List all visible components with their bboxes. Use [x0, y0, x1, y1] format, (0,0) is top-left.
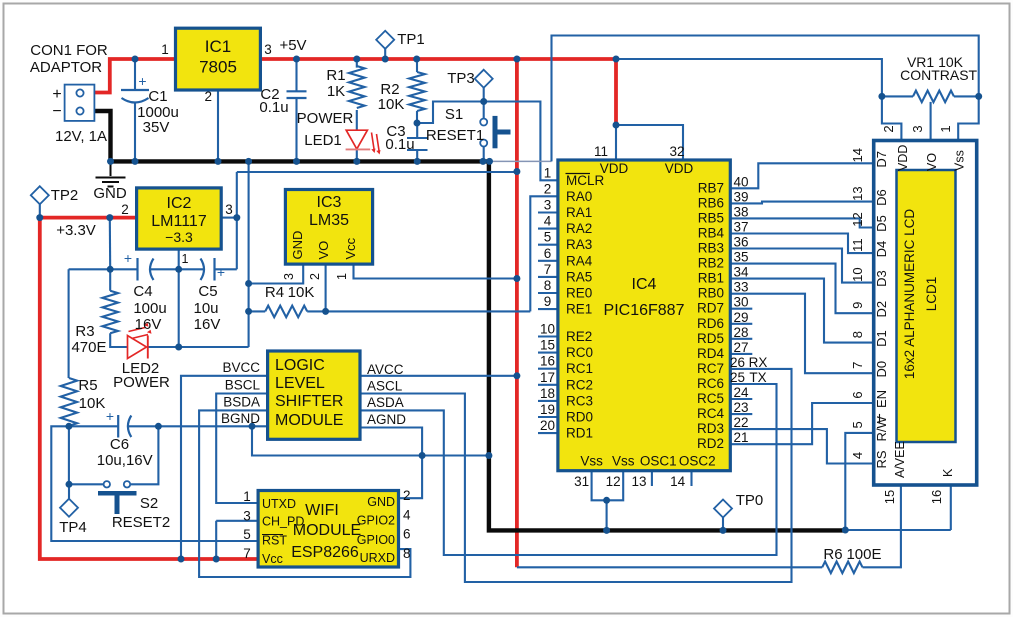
svg-text:SHIFTER: SHIFTER	[275, 393, 343, 410]
svg-text:35: 35	[733, 250, 748, 265]
svg-text:D7: D7	[874, 151, 889, 168]
svg-text:6: 6	[850, 391, 865, 398]
svg-text:BVCC: BVCC	[222, 360, 260, 375]
wire RB3 to LCD D3	[730, 249, 872, 283]
svg-text:37: 37	[733, 219, 748, 234]
wire OSC1 stub	[651, 471, 653, 486]
svg-text:7: 7	[243, 546, 251, 561]
svg-text:RA1: RA1	[566, 205, 592, 220]
wire RB0 to LCD D0	[730, 294, 872, 374]
IC4 unconnected right stubs	[730, 308, 752, 310]
wire IC3 pin3 GND	[249, 264, 304, 283]
svg-text:LM35: LM35	[309, 212, 349, 229]
svg-text:+: +	[52, 86, 61, 103]
svg-text:RE0: RE0	[566, 286, 592, 301]
svg-text:LED1: LED1	[304, 132, 342, 149]
capacitor C4	[136, 258, 138, 281]
LED2 POWER	[128, 336, 147, 359]
svg-text:RC6: RC6	[697, 376, 724, 391]
wire cap rail C4 C5	[69, 268, 237, 270]
wire C6 right to S2 right	[131, 426, 159, 484]
wire LED2 cathode to GND vert	[148, 346, 179, 348]
svg-text:VO: VO	[316, 241, 331, 260]
svg-text:16V: 16V	[194, 316, 221, 333]
svg-text:BGND: BGND	[221, 411, 260, 426]
svg-text:LM1117: LM1117	[151, 213, 207, 230]
svg-text:4: 4	[403, 508, 411, 523]
wire LED2 node to GND chain	[179, 161, 249, 347]
svg-text:IC3: IC3	[317, 194, 342, 211]
wire VR1 pin2 to LCD VDD	[882, 96, 902, 140]
svg-text:RC4: RC4	[697, 406, 724, 421]
svg-text:36: 36	[733, 235, 748, 250]
svg-text:3: 3	[910, 125, 925, 132]
wire R4 to RA0	[307, 196, 558, 311]
svg-text:29: 29	[733, 310, 748, 325]
wire C1 stem	[134, 59, 136, 161]
svg-text:10u: 10u	[193, 300, 218, 317]
svg-text:39: 39	[733, 189, 748, 204]
svg-text:VDD: VDD	[600, 161, 629, 176]
svg-text:1: 1	[938, 125, 953, 132]
svg-text:40: 40	[733, 174, 748, 189]
svg-text:RB4: RB4	[698, 225, 725, 240]
svg-text:RESET1: RESET1	[426, 127, 484, 144]
svg-text:RD5: RD5	[697, 331, 724, 346]
svg-text:26: 26	[730, 355, 745, 370]
svg-text:4: 4	[850, 452, 865, 459]
svg-text:D4: D4	[874, 241, 889, 258]
svg-text:TP0: TP0	[736, 492, 764, 509]
svg-text:2: 2	[121, 202, 129, 217]
svg-text:BSCL: BSCL	[225, 378, 261, 393]
svg-text:2: 2	[544, 181, 552, 196]
svg-text:9: 9	[544, 294, 552, 309]
svg-text:TP2: TP2	[51, 187, 79, 204]
svg-text:RD0: RD0	[566, 410, 593, 425]
svg-text:5: 5	[850, 421, 865, 428]
svg-text:1: 1	[335, 273, 349, 280]
wire RST loop to WIFI RST	[51, 426, 258, 541]
svg-text:D2: D2	[874, 301, 889, 318]
svg-text:R1: R1	[326, 67, 345, 84]
svg-text:1: 1	[243, 489, 251, 504]
svg-text:8: 8	[544, 278, 552, 293]
svg-text:ESP8266: ESP8266	[291, 544, 359, 561]
svg-text:18: 18	[540, 386, 555, 401]
wire AVCC to +5V	[360, 375, 517, 377]
svg-text:MCLR: MCLR	[566, 173, 605, 188]
wire ASDA to RC6 TX	[360, 384, 777, 555]
svg-text:D1: D1	[874, 330, 889, 347]
wire TP0 stem	[722, 518, 724, 531]
svg-text:10u,16V: 10u,16V	[97, 452, 153, 469]
junction dots	[132, 56, 139, 63]
resistor R6	[822, 562, 862, 574]
svg-text:13: 13	[631, 474, 646, 489]
svg-text:1: 1	[182, 252, 189, 266]
svg-text:RESET2: RESET2	[112, 514, 170, 531]
svg-text:LOGIC: LOGIC	[275, 357, 325, 374]
svg-text:10K: 10K	[79, 395, 106, 412]
wire Vss pins of IC4	[592, 471, 624, 531]
wire WIFI CH_PD to Vcc	[216, 521, 258, 559]
svg-text:1: 1	[161, 42, 169, 57]
svg-text:R6: R6	[823, 546, 842, 563]
svg-text:30: 30	[733, 295, 748, 310]
svg-text:11: 11	[594, 144, 608, 159]
svg-text:K: K	[941, 468, 955, 477]
svg-text:RE1: RE1	[566, 302, 592, 317]
svg-text:16V: 16V	[135, 316, 162, 333]
wire RB7 to LCD D7	[730, 163, 872, 188]
svg-text:8: 8	[850, 331, 865, 338]
wire VR1 wiper to LCD VO pin3	[930, 102, 932, 141]
wire S1 to MCLR pin1	[484, 102, 558, 181]
microcontroller IC4 PIC16F887	[558, 160, 730, 471]
wire R6 line from +5V	[517, 566, 822, 568]
svg-text:27: 27	[733, 340, 748, 355]
wire TP4 stem	[68, 484, 70, 499]
svg-text:URXD: URXD	[360, 551, 395, 565]
svg-text:6: 6	[544, 246, 552, 261]
svg-text:5: 5	[243, 527, 251, 542]
svg-text:C5: C5	[198, 283, 217, 300]
wire RD2 pin21 to LCD EN	[730, 403, 872, 444]
svg-text:CON1 FOR: CON1 FOR	[30, 42, 108, 59]
svg-text:RD1: RD1	[566, 426, 593, 441]
svg-text:RB3: RB3	[698, 241, 724, 256]
svg-text:6: 6	[403, 527, 411, 542]
svg-text:19: 19	[540, 402, 555, 417]
svg-text:RD6: RD6	[697, 316, 724, 331]
svg-text:RB1: RB1	[698, 271, 724, 286]
svg-text:0.1u: 0.1u	[385, 136, 414, 153]
connector CON1	[65, 85, 95, 121]
svg-text:RST: RST	[262, 534, 287, 548]
svg-text:Vcc: Vcc	[262, 552, 283, 566]
svg-text:MODULE: MODULE	[275, 412, 343, 429]
wire rail corner to R5 top	[68, 269, 70, 378]
wire S1 stems	[483, 102, 485, 162]
svg-text:ASCL: ASCL	[367, 379, 403, 394]
test point TP3	[475, 70, 493, 88]
test point TP0	[714, 500, 732, 518]
logic level shifter module	[268, 351, 360, 439]
svg-text:33: 33	[733, 280, 748, 295]
wire RB5 to LCD D5	[730, 218, 872, 227]
svg-text:OSC2: OSC2	[679, 454, 716, 469]
display LCD1 16x2	[874, 141, 977, 486]
wire +5V to VDD pins (red)	[614, 59, 618, 125]
svg-text:IC2: IC2	[167, 195, 192, 212]
svg-text:RD4: RD4	[697, 346, 724, 361]
resistor R1	[349, 66, 365, 108]
wire +3.3V from TP2 to IC2 pin2 (red)	[40, 216, 137, 220]
svg-text:28: 28	[733, 325, 748, 340]
svg-text:7805: 7805	[199, 58, 237, 77]
wire IC2 input +5V line	[237, 172, 517, 269]
svg-text:2: 2	[881, 125, 896, 132]
resistor R4	[265, 306, 307, 318]
svg-text:C1: C1	[148, 88, 167, 105]
svg-text:2: 2	[403, 488, 411, 503]
svg-text:3: 3	[282, 273, 296, 280]
wire R2 node to S1 top	[417, 102, 484, 124]
svg-text:VO: VO	[925, 153, 939, 171]
svg-text:10: 10	[540, 322, 555, 337]
svg-text:17: 17	[540, 370, 555, 385]
svg-text:RE2: RE2	[566, 329, 592, 344]
svg-text:12V, 1A: 12V, 1A	[55, 128, 107, 145]
svg-text:470E: 470E	[71, 339, 106, 356]
svg-text:5: 5	[544, 230, 552, 245]
wire K pin16 to GND	[845, 485, 951, 530]
wire RB4 to LCD D4	[730, 234, 872, 254]
wire IC2 pin3 stub	[221, 217, 237, 219]
svg-text:1: 1	[544, 165, 552, 180]
svg-text:RD2: RD2	[697, 436, 724, 451]
svg-text:7: 7	[544, 262, 552, 277]
wire IC3 pin2 VO	[325, 264, 327, 311]
capacitor C2	[287, 91, 307, 98]
svg-text:Vss: Vss	[612, 454, 635, 469]
svg-text:BSDA: BSDA	[223, 395, 260, 410]
svg-text:10K: 10K	[378, 96, 405, 113]
svg-text:2: 2	[308, 273, 322, 280]
svg-text:RB5: RB5	[698, 210, 724, 225]
wifi module ESP8266	[258, 491, 398, 568]
svg-text:RD7: RD7	[697, 301, 724, 316]
svg-text:RX: RX	[749, 355, 768, 370]
svg-text:CH_PD: CH_PD	[262, 515, 304, 529]
svg-text:RC2: RC2	[566, 377, 593, 392]
sensor IC3 LM35	[285, 190, 372, 265]
svg-text:12: 12	[606, 474, 621, 489]
svg-text:16: 16	[540, 354, 555, 369]
svg-text:34: 34	[733, 265, 749, 280]
svg-text:D6: D6	[874, 189, 889, 206]
svg-text:LEVEL: LEVEL	[275, 375, 325, 392]
svg-text:POWER: POWER	[297, 110, 354, 127]
test point TP4	[60, 499, 78, 517]
svg-text:Vss: Vss	[580, 454, 603, 469]
svg-text:21: 21	[733, 430, 748, 445]
svg-text:D5: D5	[874, 215, 889, 232]
wire GND rail end to LCD Vss top route (light)	[490, 160, 552, 162]
svg-text:10K: 10K	[288, 284, 315, 301]
wire CON1 plus to IC1 (red)	[94, 59, 175, 93]
svg-text:S1: S1	[445, 106, 463, 123]
svg-text:24: 24	[733, 385, 749, 400]
svg-text:RA4: RA4	[566, 253, 593, 268]
svg-text:AVCC: AVCC	[367, 362, 404, 377]
svg-text:OSC1: OSC1	[640, 454, 677, 469]
svg-text:16: 16	[929, 490, 944, 504]
svg-text:3: 3	[225, 202, 233, 217]
svg-text:RB0: RB0	[698, 286, 724, 301]
svg-text:POWER: POWER	[113, 374, 170, 391]
IC4 unconnected left stubs	[538, 211, 558, 213]
svg-text:14: 14	[670, 474, 686, 489]
svg-text:3: 3	[243, 509, 251, 524]
svg-text:GND: GND	[367, 495, 395, 509]
svg-text:Vss: Vss	[953, 150, 967, 171]
svg-text:+: +	[124, 250, 132, 266]
svg-text:D3: D3	[874, 270, 889, 287]
svg-text:RC0: RC0	[566, 345, 593, 360]
svg-text:+5V: +5V	[279, 37, 306, 54]
wire CON1 minus to GND (black)	[94, 111, 110, 161]
resistor R2	[409, 72, 425, 111]
switch S2 RESET2	[104, 481, 110, 487]
svg-text:TP1: TP1	[397, 31, 425, 48]
wire RB6 to LCD D6	[730, 202, 872, 204]
svg-text:GPIO2: GPIO2	[357, 514, 395, 528]
wire IC2 pin1 stub to LED2 node	[178, 249, 180, 347]
svg-text:C4: C4	[133, 283, 152, 300]
svg-text:RB7: RB7	[698, 180, 724, 195]
wire C2 stem	[295, 59, 297, 161]
wire R1-LED1 chain	[356, 59, 358, 161]
wire +5V blue to VR1	[616, 59, 882, 96]
wire ASCL to RC7 RX	[360, 369, 792, 582]
svg-text:ADAPTOR: ADAPTOR	[30, 59, 102, 76]
wire VR1 end leads	[882, 95, 979, 97]
svg-text:RA5: RA5	[566, 269, 592, 284]
svg-text:PIC16F887: PIC16F887	[604, 302, 685, 319]
svg-text:Vcc: Vcc	[343, 237, 358, 259]
svg-text:+: +	[106, 408, 114, 424]
svg-text:16x2 ALPHANUMERIC LCD: 16x2 ALPHANUMERIC LCD	[902, 209, 917, 380]
wire BSCL to WIFI UTXD	[216, 394, 267, 504]
svg-text:RS: RS	[874, 450, 889, 468]
wire +3.3V down left side and to WIFI Vcc (red)	[40, 218, 258, 559]
svg-text:D0: D0	[874, 361, 889, 378]
svg-text:S2: S2	[140, 495, 158, 512]
wire R3 top lead	[109, 269, 111, 291]
wire BVCC to +3.3V	[181, 376, 268, 559]
capacitor C3	[407, 138, 428, 150]
wire BSDA to WIFI URXD	[199, 410, 410, 577]
ground symbol GND	[110, 161, 112, 176]
resistor R5	[61, 378, 77, 426]
wire R3 to LED2 anode	[110, 333, 127, 347]
svg-text:A/VEE: A/VEE	[893, 441, 907, 478]
wire GND rail (black)	[111, 161, 846, 530]
svg-text:TX: TX	[749, 370, 766, 385]
wire RB2 to LCD D2	[730, 264, 872, 314]
svg-text:RC3: RC3	[566, 393, 593, 408]
svg-text:RD3: RD3	[697, 421, 724, 436]
wire AGND down to WIFI GND pin2	[399, 456, 423, 499]
svg-text:UTXD: UTXD	[262, 497, 296, 511]
wire TP3 stem	[483, 88, 485, 102]
svg-text:IC1: IC1	[205, 37, 231, 56]
test point TP1	[376, 31, 394, 49]
svg-text:35V: 35V	[143, 119, 170, 136]
svg-text:100u: 100u	[133, 300, 166, 317]
svg-text:10: 10	[850, 267, 865, 281]
svg-text:11: 11	[850, 238, 865, 252]
svg-text:20: 20	[540, 418, 555, 433]
wire +5V branch down to R6 line (red)	[515, 59, 519, 567]
resistor R3	[102, 291, 118, 334]
svg-text:CONTRAST: CONTRAST	[900, 67, 977, 83]
test point TP2	[31, 186, 49, 204]
svg-text:14: 14	[850, 148, 865, 162]
svg-text:32: 32	[669, 144, 684, 159]
svg-text:3: 3	[264, 42, 272, 57]
svg-text:RA2: RA2	[566, 221, 592, 236]
wire IC3 pin1 Vcc to +5V	[354, 264, 517, 278]
svg-text:22: 22	[733, 415, 748, 430]
svg-text:0.1u: 0.1u	[259, 99, 288, 116]
wire R2 leads	[416, 59, 418, 123]
svg-text:ASDA: ASDA	[367, 395, 404, 410]
svg-text:WIFI: WIFI	[305, 502, 339, 519]
potentiometer VR1 10K	[913, 91, 954, 103]
wire TP1 stem	[384, 49, 386, 60]
svg-text:38: 38	[733, 204, 748, 219]
wire LCD Vss pin1	[958, 96, 979, 140]
svg-text:+: +	[138, 73, 146, 89]
regulator IC1 7805	[176, 28, 261, 90]
svg-text:LCD1: LCD1	[924, 277, 939, 312]
svg-text:RB2: RB2	[698, 256, 724, 271]
wire R6 to LCD A/VEE pin15	[863, 485, 901, 567]
svg-text:R4: R4	[265, 284, 284, 301]
svg-text:+3.3V: +3.3V	[56, 222, 96, 239]
switch S1 RESET1	[480, 119, 487, 126]
wire C3 stems	[416, 123, 418, 161]
svg-text:GPIO0: GPIO0	[357, 533, 395, 547]
svg-text:TP4: TP4	[59, 519, 87, 536]
capacitor C5	[201, 259, 205, 281]
wire RB1 to LCD D1	[730, 279, 872, 343]
svg-text:AGND: AGND	[367, 412, 406, 427]
wire OSC2 stub	[690, 471, 692, 486]
svg-text:RA0: RA0	[566, 189, 592, 204]
svg-text:IC4: IC4	[632, 276, 657, 293]
svg-text:2: 2	[205, 89, 213, 104]
svg-text:R/W: R/W	[874, 416, 889, 442]
capacitor C6	[117, 415, 119, 438]
svg-text:25: 25	[730, 370, 745, 385]
svg-text:TP3: TP3	[447, 70, 475, 87]
svg-text:R5: R5	[78, 377, 97, 394]
svg-text:13: 13	[850, 186, 865, 200]
svg-text:EN: EN	[874, 390, 889, 408]
wire LCD RW to GND	[845, 433, 872, 530]
svg-text:RC7: RC7	[697, 361, 724, 376]
svg-text:R3: R3	[75, 323, 94, 340]
svg-text:GND: GND	[93, 185, 127, 202]
svg-text:C6: C6	[110, 436, 129, 453]
wire +3.3V branch down to R3	[109, 218, 111, 270]
wire VDD pin11	[615, 125, 617, 160]
wire AGND	[360, 428, 422, 456]
svg-text:RA3: RA3	[566, 237, 592, 252]
svg-text:+: +	[217, 264, 225, 280]
wire +5V rail (red)	[260, 57, 616, 61]
svg-text:8: 8	[403, 546, 411, 561]
svg-text:100E: 100E	[846, 546, 881, 563]
svg-text:RB6: RB6	[698, 195, 724, 210]
svg-text:7: 7	[850, 362, 865, 369]
svg-text:15: 15	[882, 490, 897, 504]
wire BGND line with C6	[69, 425, 268, 427]
